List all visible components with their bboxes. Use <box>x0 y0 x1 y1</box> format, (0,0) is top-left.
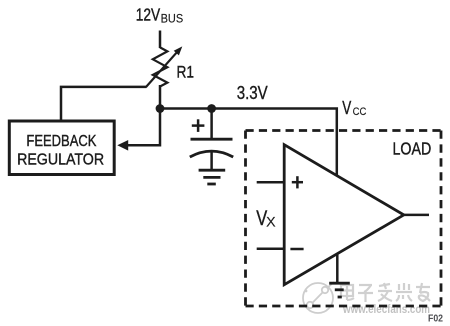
svg-text:R1: R1 <box>177 64 195 82</box>
node junction dot capacitor tap <box>207 104 216 113</box>
watermark logo (elecfans circle) <box>303 282 334 313</box>
wire inverting input <box>257 247 285 250</box>
svg-text:12V: 12V <box>136 5 161 25</box>
capacitor C1 positive lead <box>210 109 213 141</box>
wire regulator output to R1 wiper <box>61 87 147 120</box>
resistor R1 (zigzag) <box>153 47 168 86</box>
capacitor C1 bottom lead <box>210 151 213 171</box>
feedback regulator box <box>9 121 114 175</box>
op-amp U1 plus input mark <box>292 176 303 188</box>
svg-text:CC: CC <box>353 106 367 118</box>
svg-text:FEEDBACK: FEEDBACK <box>26 133 97 150</box>
wire 12VBUS to R1 top <box>159 31 162 49</box>
resistor R1 wiper arrow <box>146 53 177 87</box>
wire output <box>404 214 429 217</box>
svg-text:BUS: BUS <box>161 12 184 26</box>
LOAD dashed box <box>246 131 442 307</box>
svg-text:3.3V: 3.3V <box>237 82 269 103</box>
wire feedback tap to regulator input (arrow) <box>128 144 161 147</box>
ground (capacitor) <box>199 170 226 184</box>
svg-text:LOAD: LOAD <box>393 138 432 158</box>
wire noninverting input <box>257 181 285 184</box>
svg-text:F02: F02 <box>428 313 443 325</box>
capacitor C1 top plate <box>191 138 233 141</box>
capacitor C1 plus sign <box>192 119 205 132</box>
wire op-amp ground lead <box>336 254 339 284</box>
svg-text:X: X <box>266 214 276 230</box>
node junction dot R1/rail <box>156 104 165 113</box>
wire 3.3V rail and VCC drop <box>160 109 337 178</box>
svg-text:V: V <box>342 98 351 118</box>
ground (op-amp) <box>329 283 350 297</box>
watermark text 电子发烧友 (approximated strokes) <box>341 283 430 302</box>
svg-text:REGULATOR: REGULATOR <box>17 151 104 168</box>
capacitor C1 curved plate <box>190 151 233 157</box>
op-amp U1 triangle <box>284 145 404 285</box>
op-amp U1 minus input mark <box>290 248 303 251</box>
wire R1 bottom to feedback tap <box>159 85 162 147</box>
